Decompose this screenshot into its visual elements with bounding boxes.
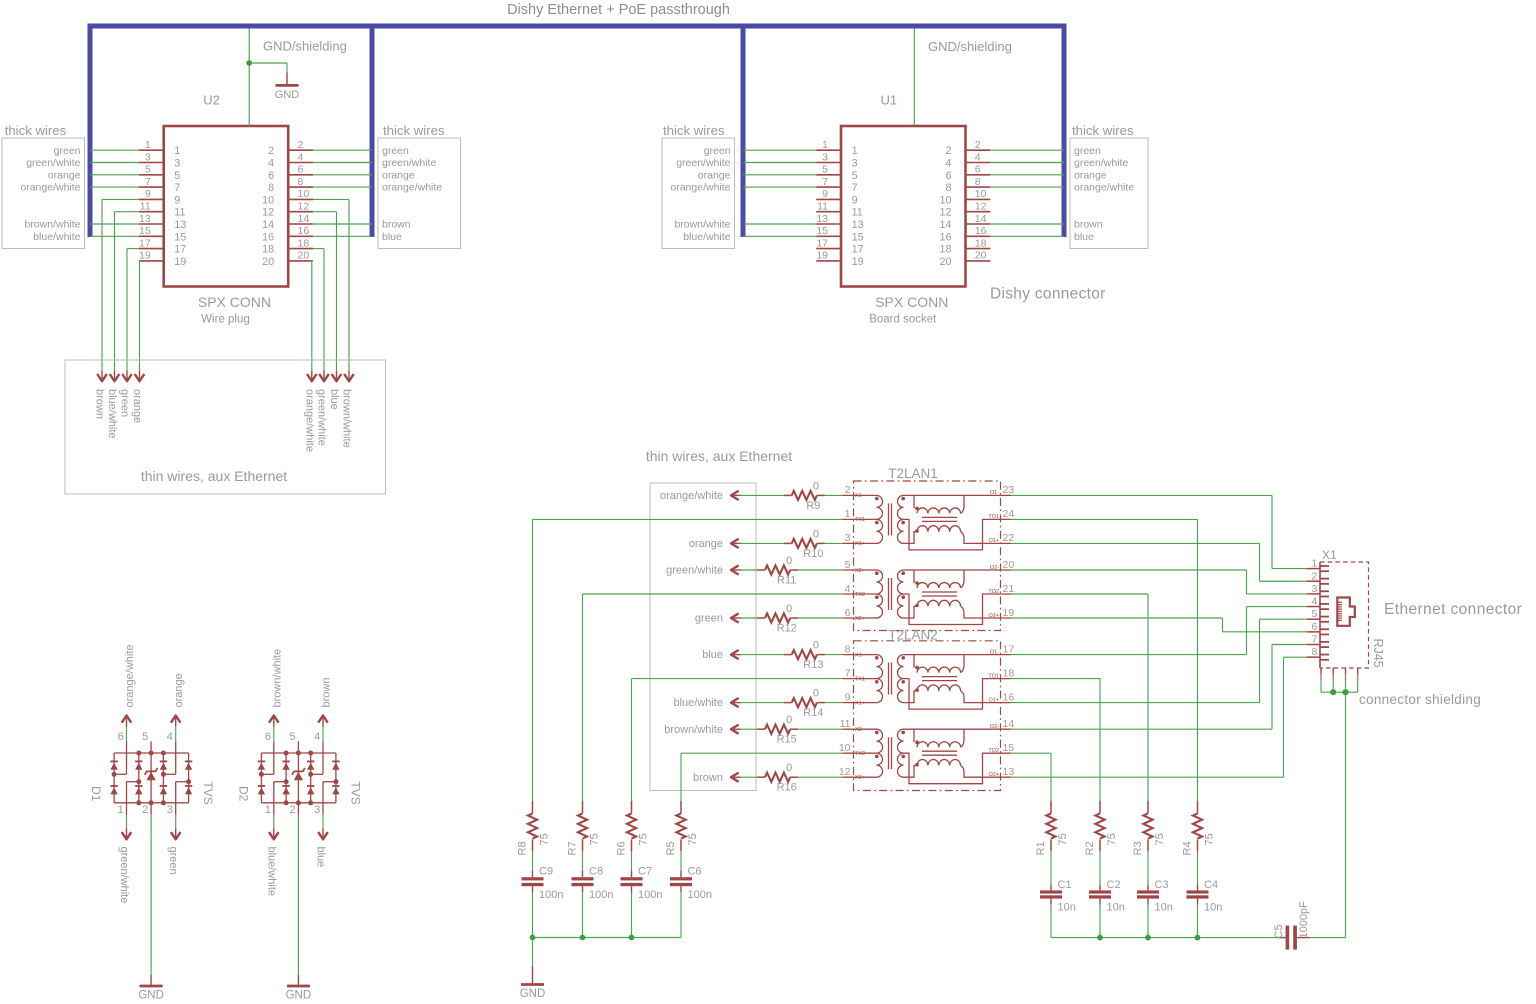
svg-text:75: 75	[1057, 833, 1069, 845]
svg-text:R13: R13	[803, 659, 823, 671]
capacitor C5	[1277, 937, 1286, 939]
svg-text:Dishy Ethernet + PoE passthrou: Dishy Ethernet + PoE passthrough	[507, 2, 730, 18]
center tap route	[904, 679, 1012, 710]
wire U2 pin 14 to bus	[313, 223, 372, 225]
svg-text:R4: R4	[1182, 841, 1194, 855]
resistor R7	[582, 801, 584, 813]
svg-text:15: 15	[816, 225, 828, 237]
arrow	[101, 370, 103, 381]
junction	[580, 935, 586, 941]
svg-text:green: green	[1074, 145, 1101, 157]
junction	[246, 60, 252, 66]
svg-text:3: 3	[167, 804, 173, 816]
svg-text:0: 0	[786, 714, 792, 726]
svg-text:14: 14	[939, 219, 951, 231]
svg-text:22: 22	[1003, 532, 1015, 544]
svg-text:1: 1	[118, 804, 124, 816]
svg-text:5: 5	[852, 170, 858, 182]
svg-text:brown: brown	[1074, 219, 1103, 231]
svg-text:5: 5	[1312, 608, 1318, 620]
svg-text:18: 18	[1003, 667, 1015, 679]
wire to RJ45 pin 8	[1011, 776, 1284, 778]
svg-text:9: 9	[852, 194, 858, 206]
svg-text:1: 1	[822, 139, 828, 151]
svg-text:14: 14	[298, 213, 310, 225]
U2 pin 18 stub	[288, 248, 313, 250]
svg-text:orange/white: orange/white	[20, 182, 80, 194]
svg-text:X2-: X2-	[855, 568, 864, 574]
svg-text:C4: C4	[1204, 879, 1218, 891]
connector X1 RJ45 box	[1320, 562, 1369, 668]
svg-text:thick wires: thick wires	[383, 123, 445, 138]
svg-text:X1+: X1+	[855, 700, 865, 706]
resistor R10	[740, 542, 784, 544]
resistor R13	[740, 654, 784, 656]
svg-text:5: 5	[289, 731, 295, 743]
ground GND D2	[297, 975, 299, 986]
U2 pin 10 stub	[288, 198, 313, 200]
svg-text:blue: blue	[315, 847, 327, 868]
svg-text:orange/white: orange/white	[382, 182, 442, 194]
svg-text:0: 0	[813, 688, 819, 700]
U1 pin 14 stub	[966, 223, 991, 225]
svg-text:3: 3	[314, 804, 320, 816]
rail junctions	[284, 751, 289, 756]
choke O1 bottom winding	[915, 688, 919, 692]
wire center tap left	[583, 593, 844, 595]
svg-text:19: 19	[816, 250, 828, 262]
box thin wires aux Ethernet right	[650, 483, 756, 791]
wire center tap left	[533, 518, 844, 520]
svg-text:thick wires: thick wires	[1072, 123, 1134, 138]
U2 pin 9 stub	[139, 198, 164, 200]
svg-text:orange: orange	[382, 169, 415, 181]
svg-text:TO1: TO1	[988, 673, 999, 679]
svg-text:10n: 10n	[1107, 901, 1125, 913]
svg-text:8: 8	[845, 643, 851, 655]
box thick wires U1 right	[1070, 138, 1148, 249]
svg-text:16: 16	[298, 225, 310, 237]
svg-text:O1-: O1-	[990, 490, 999, 496]
svg-text:blue: blue	[1074, 231, 1094, 243]
wire U2 pin 16 to bus	[313, 235, 372, 237]
arrow green/white	[731, 569, 741, 571]
D1 pin 2 to ground	[150, 803, 152, 815]
svg-text:orange: orange	[48, 169, 81, 181]
svg-text:17: 17	[852, 244, 864, 256]
U1 pin 12 stub	[966, 211, 991, 213]
svg-text:brown: brown	[94, 389, 106, 419]
arrow brown/white	[731, 728, 741, 730]
U1 pin 5 stub	[816, 174, 841, 176]
wire U2 pin 13 to bus	[90, 223, 139, 225]
U1 pin 11 stub	[816, 211, 841, 213]
svg-text:GND/shielding: GND/shielding	[928, 39, 1012, 54]
transformer winding primary X2	[843, 728, 877, 730]
svg-text:orange/white: orange/white	[660, 490, 723, 502]
wire U2 pin 18 down to aux	[313, 248, 324, 250]
transformer core	[888, 663, 890, 695]
choke core	[922, 750, 957, 752]
svg-text:10: 10	[298, 188, 310, 200]
svg-text:9: 9	[145, 188, 151, 200]
wire shielding down	[1345, 692, 1347, 937]
diode pair	[307, 760, 314, 762]
junction	[1330, 689, 1336, 695]
choke O2 top winding	[904, 569, 1012, 571]
svg-text:6: 6	[298, 164, 304, 176]
svg-text:R5: R5	[665, 841, 677, 855]
svg-text:2: 2	[945, 145, 951, 157]
svg-text:1: 1	[174, 145, 180, 157]
resistor R16	[740, 776, 758, 778]
svg-text:8: 8	[945, 182, 951, 194]
svg-text:Board socket: Board socket	[869, 314, 937, 326]
svg-text:TO2: TO2	[988, 589, 999, 595]
junction	[1342, 689, 1348, 695]
svg-text:24: 24	[1003, 508, 1015, 520]
svg-text:75: 75	[539, 833, 551, 845]
svg-text:O2-: O2-	[990, 565, 999, 571]
U2 pin 13 stub	[139, 223, 164, 225]
D1 pin 3	[176, 781, 189, 783]
svg-text:orange: orange	[689, 538, 723, 550]
arrow blue	[731, 654, 741, 656]
svg-text:orange: orange	[1074, 169, 1107, 181]
svg-text:9: 9	[174, 194, 180, 206]
svg-text:R7: R7	[567, 841, 579, 855]
svg-text:8: 8	[975, 176, 981, 188]
svg-text:7: 7	[174, 182, 180, 194]
U2 pin 4 stub	[288, 162, 313, 164]
transformer winding secondary X2	[898, 729, 904, 777]
svg-text:1: 1	[1312, 558, 1318, 570]
svg-text:X2+: X2+	[855, 775, 865, 781]
connector U2 SPX CONN box	[164, 126, 289, 287]
wire U2 pin 3 to bus	[90, 162, 139, 164]
svg-text:6: 6	[268, 170, 274, 182]
U1 pin 19 stub	[816, 260, 841, 262]
choke O2 bottom winding	[915, 604, 919, 608]
svg-text:X2+: X2+	[855, 616, 865, 622]
svg-text:O1-: O1-	[990, 649, 999, 655]
svg-text:9: 9	[822, 188, 828, 200]
svg-text:0: 0	[786, 762, 792, 774]
svg-text:green: green	[54, 145, 81, 157]
arrow	[126, 370, 128, 381]
svg-text:TO1: TO1	[988, 514, 999, 520]
diode pair	[258, 760, 265, 762]
U1 pin 17 stub	[816, 248, 841, 250]
box thick wires U2 right	[378, 138, 461, 249]
bus segment left vertical 2	[370, 24, 375, 238]
svg-text:O2+: O2+	[988, 613, 999, 619]
svg-text:C8: C8	[589, 866, 603, 878]
choke core	[922, 676, 957, 678]
svg-text:5: 5	[174, 170, 180, 182]
U1 pin 7 stub	[816, 186, 841, 188]
junction	[530, 935, 536, 941]
wire U1 pin 13 to bus	[743, 223, 816, 225]
X1 pin 3	[1307, 593, 1320, 595]
wire GND bus left	[533, 937, 682, 939]
svg-text:75: 75	[638, 833, 650, 845]
choke O1 top winding	[904, 654, 1012, 656]
X1 pin 4	[1307, 606, 1320, 608]
U2 pin 11 stub	[139, 211, 164, 213]
svg-text:orange: orange	[698, 169, 731, 181]
svg-text:green/white: green/white	[118, 847, 130, 904]
svg-text:1: 1	[265, 804, 271, 816]
transformer winding primary X1	[843, 654, 877, 656]
svg-text:green/white: green/white	[676, 157, 730, 169]
svg-text:C5: C5	[1273, 924, 1285, 938]
svg-text:T2LAN1: T2LAN1	[888, 466, 938, 481]
svg-text:R16: R16	[777, 782, 797, 794]
choke O1 top winding	[904, 494, 1012, 496]
svg-text:blue: blue	[702, 649, 723, 661]
svg-text:20: 20	[298, 250, 310, 262]
D2 pin 4	[322, 716, 324, 727]
svg-text:2: 2	[845, 484, 851, 496]
svg-text:20: 20	[262, 256, 274, 268]
svg-text:14: 14	[1003, 718, 1015, 730]
svg-text:2: 2	[142, 804, 148, 816]
wire U2 pin 6 to bus	[313, 174, 372, 176]
svg-text:18: 18	[975, 237, 987, 249]
arrow	[114, 370, 116, 381]
svg-text:12: 12	[262, 207, 274, 219]
svg-text:100n: 100n	[589, 889, 613, 901]
svg-text:green: green	[119, 389, 131, 417]
svg-text:15: 15	[174, 231, 186, 243]
diode array D2 frame	[261, 752, 336, 754]
resistor R6	[631, 801, 633, 813]
diode pair	[332, 760, 339, 762]
svg-text:3: 3	[145, 151, 151, 163]
svg-text:orange/white: orange/white	[124, 645, 136, 708]
U2 pin 1 stub	[139, 149, 164, 151]
svg-text:SPX CONN: SPX CONN	[198, 294, 271, 310]
svg-text:75: 75	[1106, 833, 1118, 845]
X1 pin 8	[1307, 656, 1320, 658]
svg-text:18: 18	[298, 237, 310, 249]
svg-text:blue: blue	[382, 231, 402, 243]
resistor R12	[740, 617, 758, 619]
svg-text:4: 4	[314, 731, 320, 743]
svg-text:R9: R9	[806, 500, 820, 512]
svg-text:X1-: X1-	[855, 652, 864, 658]
svg-text:green: green	[695, 613, 723, 625]
svg-text:green: green	[382, 145, 409, 157]
wire center tap right	[1011, 518, 1198, 520]
diode pair	[135, 760, 142, 762]
X1 pin 6	[1307, 631, 1320, 633]
X1 pin 1	[1307, 568, 1320, 570]
transformer winding primary X1	[843, 494, 877, 496]
U1 pin 4 stub	[966, 162, 991, 164]
svg-text:TX1: TX1	[855, 676, 865, 682]
svg-text:8: 8	[298, 176, 304, 188]
capacitor C8	[582, 851, 584, 871]
diode pair	[185, 760, 192, 762]
svg-text:RJ45: RJ45	[1371, 639, 1385, 668]
resistor R3	[1147, 801, 1149, 813]
choke O1 bottom winding	[915, 529, 919, 533]
D2 pin 5 stub	[297, 741, 299, 753]
U1 pin 8 stub	[966, 186, 991, 188]
wire to GND left	[532, 938, 534, 967]
svg-text:brown: brown	[693, 772, 723, 784]
svg-text:10: 10	[839, 742, 851, 754]
svg-text:X2-: X2-	[855, 727, 864, 733]
svg-text:6: 6	[945, 170, 951, 182]
svg-text:2: 2	[268, 145, 274, 157]
svg-text:R1: R1	[1035, 841, 1047, 855]
arrow	[336, 370, 338, 381]
svg-text:20: 20	[939, 256, 951, 268]
svg-text:100n: 100n	[539, 889, 563, 901]
svg-text:R2: R2	[1084, 841, 1096, 855]
wire U1 pin 5 to bus	[743, 174, 816, 176]
svg-text:thick wires: thick wires	[5, 123, 67, 138]
diode array D1 frame	[114, 752, 189, 754]
D2 pin 1	[274, 781, 286, 783]
svg-text:4: 4	[167, 731, 173, 743]
U2 pin 20 stub	[288, 260, 313, 262]
svg-text:blue/white: blue/white	[265, 847, 277, 897]
svg-text:GND/shielding: GND/shielding	[263, 39, 347, 54]
D1 pin 6	[126, 716, 128, 727]
svg-text:R12: R12	[777, 623, 797, 635]
svg-text:18: 18	[262, 244, 274, 256]
svg-text:green/white: green/white	[1074, 157, 1128, 169]
svg-text:11: 11	[174, 207, 185, 219]
box thick wires U1 left	[662, 138, 735, 249]
junction	[629, 935, 635, 941]
svg-text:17: 17	[139, 237, 151, 249]
svg-text:12: 12	[939, 207, 951, 219]
svg-text:blue: blue	[328, 389, 340, 410]
resistor R4	[1197, 801, 1199, 813]
wire U1 shield to bus	[913, 29, 915, 126]
resistor R15	[740, 728, 758, 730]
svg-text:16: 16	[1003, 691, 1015, 703]
U2 pin 19 stub	[139, 260, 164, 262]
svg-text:10: 10	[939, 194, 951, 206]
svg-text:7: 7	[845, 667, 851, 679]
wire to RJ45 pin 3	[1011, 569, 1247, 571]
svg-text:21: 21	[1003, 583, 1015, 595]
svg-text:thick wires: thick wires	[663, 123, 725, 138]
wire U2 pin 5 to bus	[90, 174, 139, 176]
TVS zener D1	[150, 753, 152, 803]
svg-text:3: 3	[1312, 583, 1318, 595]
svg-text:23: 23	[1003, 484, 1015, 496]
bus segment left vertical 1	[88, 24, 93, 238]
transformer core	[888, 737, 890, 769]
svg-text:19: 19	[1003, 607, 1015, 619]
D1 pin 5 stub	[150, 741, 152, 753]
resistor R11	[740, 569, 758, 571]
svg-text:0: 0	[813, 640, 819, 652]
svg-text:connector shielding: connector shielding	[1359, 692, 1481, 707]
transformer core	[888, 503, 890, 535]
wire U2 pin 8 to bus	[313, 186, 372, 188]
capacitor C1	[1050, 851, 1052, 885]
capacitor C2	[1099, 851, 1101, 885]
svg-text:Ethernet connector: Ethernet connector	[1384, 601, 1522, 618]
svg-text:green/white: green/white	[382, 157, 436, 169]
svg-text:4: 4	[298, 151, 304, 163]
svg-text:13: 13	[852, 219, 864, 231]
wire U1 pin 2 to bus	[990, 149, 1064, 151]
diode pair	[282, 760, 289, 762]
wire to RJ45 pin 5	[1011, 702, 1260, 704]
wire U1 pin 7 to bus	[743, 186, 816, 188]
U1 pin 13 stub	[816, 223, 841, 225]
svg-text:orange: orange	[173, 673, 185, 707]
svg-text:4: 4	[1312, 596, 1318, 608]
U1 pin 15 stub	[816, 235, 841, 237]
svg-text:16: 16	[939, 231, 951, 243]
svg-text:green: green	[167, 847, 179, 875]
wire U2 pin 11 down to aux	[115, 211, 139, 213]
svg-text:TX2: TX2	[855, 592, 865, 598]
U2 pin 14 stub	[288, 223, 313, 225]
diode pair	[110, 760, 117, 762]
junction	[1145, 935, 1151, 941]
svg-text:X1: X1	[1322, 548, 1337, 562]
svg-text:C6: C6	[688, 866, 702, 878]
svg-text:6: 6	[265, 731, 271, 743]
U2 pin 12 stub	[288, 211, 313, 213]
X1 pin 2	[1307, 580, 1320, 582]
choke O2 top winding	[904, 728, 1012, 730]
svg-text:13: 13	[174, 219, 186, 231]
D1 pin 1	[127, 781, 139, 783]
svg-text:brown/white: brown/white	[674, 219, 730, 231]
svg-text:0: 0	[786, 555, 792, 567]
svg-text:SPX CONN: SPX CONN	[875, 294, 948, 310]
center tap route	[904, 594, 1012, 625]
capacitor C3	[1147, 851, 1149, 885]
wire U1 pin 16 to bus	[990, 235, 1064, 237]
center tap route	[904, 753, 1012, 784]
svg-text:20: 20	[1003, 559, 1015, 571]
wire U1 pin 4 to bus	[990, 162, 1064, 164]
transformer winding secondary X2	[898, 570, 904, 618]
svg-text:7: 7	[852, 182, 858, 194]
svg-text:16: 16	[975, 225, 987, 237]
svg-text:X1+: X1+	[855, 541, 865, 547]
svg-text:brown/white: brown/white	[664, 724, 723, 736]
transformer T2LAN2 box	[854, 641, 1001, 791]
svg-text:0: 0	[813, 528, 819, 540]
wire connector shielding	[1321, 691, 1358, 693]
transformer winding primary X2	[843, 569, 877, 571]
svg-text:6: 6	[1312, 621, 1318, 633]
svg-text:green/white: green/white	[666, 565, 723, 577]
svg-text:20: 20	[975, 250, 987, 262]
X1 pin 7	[1307, 644, 1320, 646]
svg-text:D1: D1	[89, 786, 103, 802]
svg-text:R10: R10	[803, 548, 823, 560]
svg-text:19: 19	[139, 250, 151, 262]
ground GND bottom left	[532, 966, 534, 985]
svg-text:C3: C3	[1155, 879, 1169, 891]
svg-text:10n: 10n	[1058, 901, 1076, 913]
